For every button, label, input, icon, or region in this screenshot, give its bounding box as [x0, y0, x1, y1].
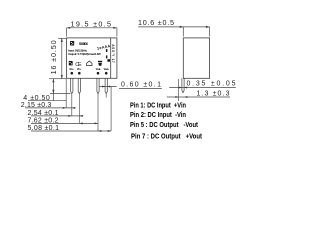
svg-text:Vout+: Vout+: [104, 68, 110, 71]
side view outline: [183, 38, 209, 78]
dimension 19.5 top: [67, 28, 117, 37]
svg-text:Pin 5 : DC Output -Vout: Pin 5 : DC Output -Vout: [130, 120, 198, 129]
svg-text:Output: 5-7.5(2xI)Vmax/1.5W: Output: 5-7.5(2xI)Vmax/1.5W: [68, 52, 101, 56]
svg-text:0.60 ±0.1: 0.60 ±0.1: [121, 82, 161, 89]
dimension 4 pin length vertical arrow: [49, 79, 71, 101]
label logo: [70, 41, 74, 46]
extension line pin1: [71, 94, 73, 116]
extension line module left edge: [65, 79, 67, 108]
side view pin: [182, 78, 184, 92]
svg-text:16 ±0.50: 16 ±0.50: [49, 40, 58, 74]
svg-text:Vout-: Vout-: [96, 68, 101, 71]
label pin dots: [71, 72, 108, 75]
pin 5: [97, 78, 99, 93]
svg-text:10.6 ±0.5: 10.6 ±0.5: [138, 18, 174, 27]
module front view outline: [67, 38, 117, 78]
label cert icons: [69, 59, 110, 68]
svg-text:1.3 ±0.3: 1.3 ±0.3: [197, 91, 230, 98]
dimension 10.6 top: [138, 27, 209, 37]
side pin extension line: [177, 79, 179, 101]
svg-text:S0806: S0806: [79, 41, 89, 46]
pin 1: [71, 78, 73, 93]
label pin name texts: [69, 68, 109, 71]
label right strip divider: [110, 38, 112, 78]
pin 7: [105, 78, 107, 93]
svg-text:19.5 ±0.5: 19.5 ±0.5: [71, 19, 112, 28]
svg-text:Pin 1: DC Input +Vin: Pin 1: DC Input +Vin: [130, 100, 186, 109]
svg-text:Pin 2: DC Input -Vin: Pin 2: DC Input -Vin: [130, 110, 186, 119]
extension line 5.08 right reference: [110, 87, 112, 132]
extension line pin5: [97, 94, 99, 131]
dimension 0.60 pin width: [99, 86, 117, 88]
extension line pin2: [78, 94, 80, 124]
svg-text:Pin 7 : DC Output +Vout: Pin 7 : DC Output +Vout: [131, 131, 202, 140]
svg-text:Vin-: Vin-: [77, 68, 82, 71]
dimension 16 left: [58, 38, 66, 78]
svg-text:0.35 ±0.05: 0.35 ±0.05: [187, 81, 236, 88]
dimension 1.3 pin offset: [167, 96, 230, 98]
dimension 0.35 pin thickness: [169, 87, 236, 89]
label small marks right side: [106, 49, 108, 52]
pin 2: [78, 78, 80, 93]
svg-text:Vin+: Vin+: [69, 68, 74, 71]
svg-text:ASS'Y 17: ASS'Y 17: [111, 44, 115, 63]
front pins: [71, 78, 108, 93]
extension line pin7: [105, 94, 107, 98]
